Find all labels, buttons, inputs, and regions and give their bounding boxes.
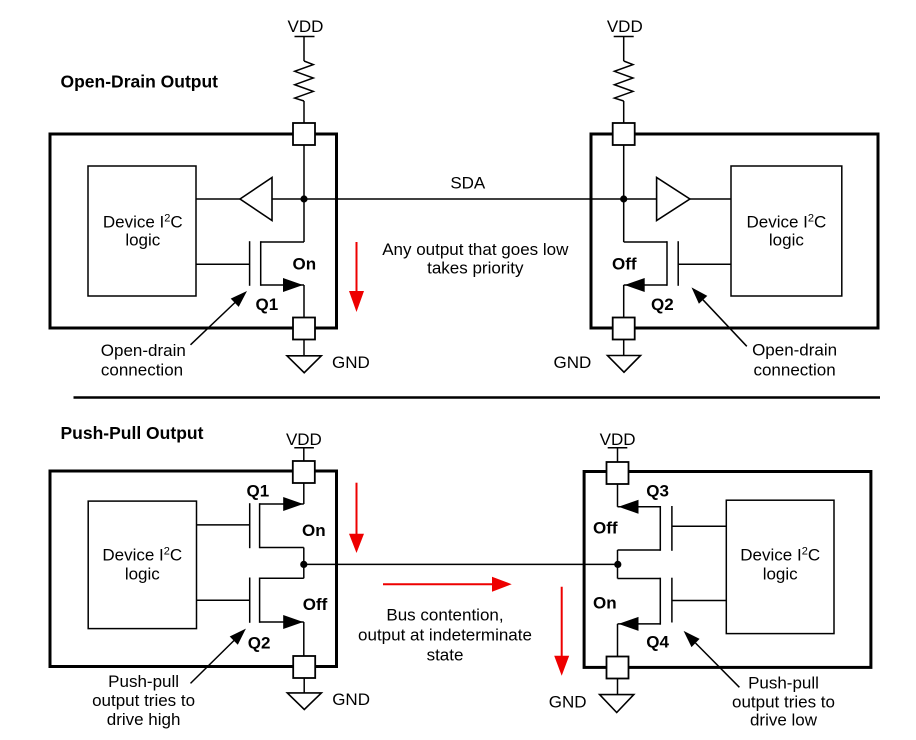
annotation arrow to Q4 (device D): [684, 631, 740, 687]
buffer U1 (input buffer, device A): [240, 178, 272, 221]
annotation: Push-pull output tries to drive high: [92, 672, 195, 729]
svg-text:Q2: Q2: [248, 633, 271, 652]
resistor R2 (right pull-up): [614, 61, 633, 101]
inner block: Device I2C logic (D): [726, 500, 834, 633]
transistor Q1 (open-drain NMOS): [196, 241, 304, 292]
svg-text:takes priority: takes priority: [427, 259, 524, 278]
svg-text:Q1: Q1: [247, 482, 270, 501]
svg-text:GND: GND: [332, 353, 370, 372]
svg-text:Device I2C: Device I2C: [103, 212, 183, 231]
pin pad GND (device C): [293, 656, 315, 678]
svg-text:Open-drain: Open-drain: [752, 341, 837, 360]
wire VDD pin to Q2 drain: [623, 145, 625, 242]
pin pad VDD (device B): [613, 123, 635, 145]
svg-text:logic: logic: [125, 231, 160, 250]
pin pad VDD (device C): [293, 461, 315, 483]
net bus output wire: [304, 563, 618, 565]
svg-text:VDD: VDD: [607, 17, 643, 36]
note: bus contention, output at indeterminate state: [358, 606, 532, 665]
svg-text:drive low: drive low: [750, 711, 818, 730]
note: any output that goes low takes priority: [382, 240, 569, 277]
svg-text:Off: Off: [593, 519, 618, 538]
svg-text:On: On: [302, 521, 326, 540]
svg-text:GND: GND: [549, 693, 587, 712]
wire VDD to resistor R2: [623, 37, 625, 62]
wire VDD to pin (device D): [617, 448, 619, 462]
svg-text:Device I2C: Device I2C: [102, 546, 182, 565]
pin pad GND (device A): [293, 318, 315, 340]
wire resistor R2 to VDD pin: [623, 101, 625, 123]
wire VDD pin to Q1 source: [303, 483, 305, 504]
wire GND pin to ground (C): [303, 678, 305, 693]
svg-text:On: On: [593, 593, 617, 612]
svg-text:state: state: [427, 646, 464, 665]
ground (device B): [608, 356, 641, 373]
svg-text:Q1: Q1: [256, 295, 279, 314]
VDD net (left pull-up): [288, 17, 324, 37]
device C box: [50, 471, 337, 667]
svg-text:Q3: Q3: [646, 482, 669, 501]
transistor Q2 (open-drain NMOS): [624, 241, 731, 292]
svg-text:GND: GND: [554, 353, 592, 372]
transistor Q1 (push-pull high side, device C): [197, 497, 304, 548]
wire VDD to pin (device C): [303, 448, 305, 461]
wire resistor R1 to VDD pin: [303, 101, 305, 123]
wire Q1 drain to output node (C): [303, 548, 305, 579]
annotation: Open-drain connection (left): [101, 341, 186, 380]
pin pad VDD (device A): [293, 123, 315, 145]
svg-text:Bus contention,: Bus contention,: [386, 606, 503, 625]
pin pad GND (device D): [607, 657, 629, 679]
svg-text:Q4: Q4: [646, 633, 669, 652]
inner block: Device I2C logic (C): [88, 501, 196, 628]
svg-text:logic: logic: [769, 231, 804, 250]
ground (device C): [287, 693, 321, 710]
pin pad VDD (device D): [607, 462, 629, 484]
wire GND pin to ground (D): [617, 679, 619, 695]
svg-text:Q2: Q2: [651, 295, 674, 314]
node output junction (device C): [300, 561, 307, 568]
VDD net (device D): [600, 430, 636, 449]
wire VDD pin to Q1 drain: [303, 145, 305, 242]
svg-text:logic: logic: [763, 565, 798, 584]
wire VDD pin to Q3 source: [617, 484, 619, 507]
wire Q1 source to GND pin: [303, 285, 305, 318]
wire buffer U1 to node SDA: [272, 198, 304, 200]
ground (device D): [600, 695, 634, 713]
svg-text:On: On: [293, 255, 317, 274]
annotation arrow to Q2: [692, 287, 747, 346]
svg-text:SDA: SDA: [450, 173, 486, 192]
node SDA junction (device B): [620, 195, 627, 202]
buffer U2 (input buffer, device B): [657, 178, 690, 221]
annotation arrow to Q2 (device C): [191, 629, 246, 684]
wire node to buffer U2: [624, 198, 657, 200]
wire buffer U2 to logic: [690, 198, 731, 200]
svg-text:output tries to: output tries to: [92, 691, 195, 710]
wire Q2 source to GND pin: [623, 285, 625, 318]
svg-text:Open-drain: Open-drain: [101, 341, 186, 360]
svg-text:Push-Pull Output: Push-Pull Output: [61, 423, 204, 443]
svg-text:VDD: VDD: [288, 17, 324, 36]
wire VDD to resistor R1: [303, 37, 305, 62]
red arrow: contention current on bus: [383, 577, 512, 592]
wire GND pin to ground: [303, 340, 305, 356]
svg-text:Off: Off: [303, 595, 328, 614]
annotation: Push-pull output tries to drive low: [732, 673, 835, 729]
svg-text:output tries to: output tries to: [732, 693, 835, 712]
VDD net (device C): [286, 430, 322, 449]
svg-text:connection: connection: [101, 361, 183, 380]
svg-text:GND: GND: [332, 690, 370, 709]
red arrow: current sink at device A: [349, 242, 364, 312]
svg-text:Device I2C: Device I2C: [746, 212, 826, 231]
annotation: Open-drain connection (right): [752, 341, 837, 380]
wire GND pin to ground: [623, 340, 625, 356]
svg-text:output at indeterminate: output at indeterminate: [358, 626, 532, 645]
svg-text:Any output that goes low: Any output that goes low: [382, 240, 569, 259]
svg-text:Push-pull: Push-pull: [748, 673, 819, 692]
ground (device A): [287, 356, 321, 373]
red arrow: device C drives high: [349, 483, 364, 553]
transistor Q4 (push-pull low side, device D): [618, 578, 727, 631]
svg-text:Device I2C: Device I2C: [740, 546, 820, 565]
wire Q4 source to GND pin (D): [617, 624, 619, 657]
svg-text:VDD: VDD: [286, 430, 322, 449]
separator line: [74, 396, 881, 399]
svg-text:connection: connection: [753, 361, 835, 380]
red arrow: device D sinks current: [554, 587, 569, 676]
svg-text:Off: Off: [612, 255, 637, 274]
device B box: [591, 134, 878, 328]
inner block: Device I2C logic (A): [88, 166, 196, 296]
device D box: [584, 472, 871, 668]
svg-text:VDD: VDD: [600, 430, 636, 449]
node output junction (device D): [614, 561, 621, 568]
transistor Q3 (push-pull high side, device D): [618, 500, 727, 551]
svg-text:Push-pull: Push-pull: [108, 672, 179, 691]
net SDA wire: [304, 198, 624, 200]
annotation arrow to Q1: [191, 291, 248, 345]
device A box: [50, 134, 337, 328]
node SDA junction (device A): [300, 195, 307, 202]
inner block: Device I2C logic (B): [731, 166, 842, 296]
svg-text:logic: logic: [125, 565, 160, 584]
svg-text:drive high: drive high: [107, 710, 181, 729]
wire logic to buffer U1: [196, 198, 240, 200]
pin pad GND (device B): [613, 318, 635, 340]
wire Q3 drain to output node (D): [617, 550, 619, 579]
svg-text:Open-Drain Output: Open-Drain Output: [61, 72, 219, 92]
VDD net (right pull-up): [607, 17, 643, 37]
transistor Q2 (push-pull low side, device C): [197, 578, 304, 630]
wire Q2 source to GND pin (C): [303, 622, 305, 656]
resistor R1 (left pull-up): [295, 61, 314, 101]
